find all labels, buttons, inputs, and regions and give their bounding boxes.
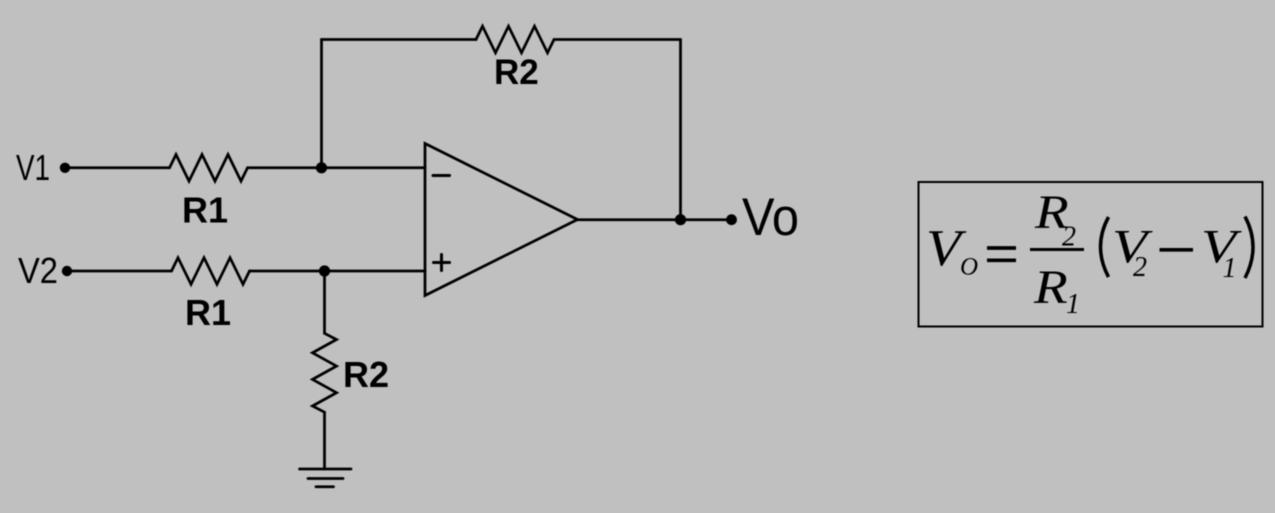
svg-text:R: R [1033, 261, 1068, 314]
wire R1 to op-amp inverting input [248, 166, 426, 169]
terminal dot V1 [60, 163, 70, 173]
svg-text:V2: V2 [18, 250, 58, 291]
svg-text:R1: R1 [182, 190, 228, 231]
svg-text:O: O [960, 254, 978, 281]
formula box [919, 182, 1263, 327]
wire feedback top right [554, 38, 681, 41]
formula right parenthesis [1245, 217, 1253, 279]
svg-text:R2: R2 [343, 354, 389, 395]
wire node A up to feedback rail [320, 40, 323, 168]
ground [300, 469, 352, 487]
resistor R2 (feedback) [476, 26, 554, 53]
formula equals sign [987, 248, 1016, 260]
svg-text:1: 1 [1066, 289, 1080, 320]
svg-text:2: 2 [1062, 222, 1076, 253]
formula left parenthesis [1101, 217, 1109, 277]
resistor R2 (to ground) [313, 333, 337, 412]
svg-text:2: 2 [1133, 252, 1147, 283]
formula minus sign [1160, 248, 1194, 252]
formula fraction bar [1030, 248, 1084, 251]
svg-text:Vo: Vo [742, 188, 799, 247]
terminal dot Vo [726, 214, 737, 225]
svg-text:R2: R2 [494, 53, 539, 92]
wire V2 terminal to R1 [73, 270, 172, 273]
wire feedback top left [322, 38, 477, 41]
svg-text:1: 1 [1223, 253, 1237, 284]
resistor R1 (V2 branch) [172, 258, 250, 285]
wire node B down to R2 [323, 271, 326, 333]
wire R1 to op-amp non-inverting input [250, 270, 426, 273]
wire feedback down to output [679, 40, 682, 220]
op-amp U1 [425, 144, 578, 296]
wire V1 terminal to R1 [71, 166, 170, 169]
wire R2 to ground [323, 412, 326, 469]
node B (non-inverting input junction) [319, 265, 330, 276]
svg-text:V1: V1 [16, 147, 50, 188]
svg-text:R1: R1 [185, 292, 231, 333]
resistor R1 (V1 branch) [170, 155, 248, 182]
node A (inverting input junction) [316, 162, 327, 173]
wire op-amp output [578, 218, 732, 221]
node C (output junction) [675, 214, 686, 225]
terminal dot V2 [62, 266, 72, 276]
